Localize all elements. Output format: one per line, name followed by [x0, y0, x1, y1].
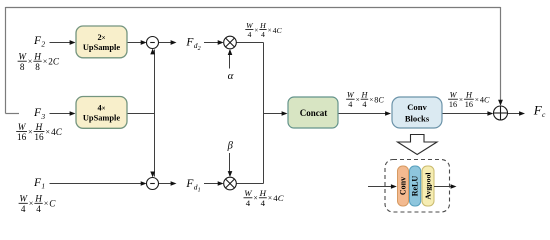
arrowhead subtract2 out: [171, 181, 177, 186]
svg-text:α: α: [228, 70, 234, 82]
hollow expansion arrow from Conv Blocks to detail module: [398, 135, 438, 155]
wire branch up to subtract1: [154, 50, 156, 114]
block Conv layer: [398, 166, 409, 206]
arrowhead into Conv Blocks: [385, 111, 391, 116]
svg-text:C: C: [49, 199, 56, 209]
label F3 input: [33, 107, 45, 121]
box Conv Blocks: [392, 97, 442, 128]
arrowhead subtract1 out: [171, 40, 177, 45]
arrowhead beta arrowhead: [228, 171, 233, 177]
arrowhead into subtract1: [141, 40, 147, 45]
wire F3 residual: left vertical: [5, 7, 7, 114]
wire 4x UpSample out: [127, 113, 155, 115]
label F1 dims W/4 x H/4 x C: [19, 194, 57, 214]
box Concat: [288, 97, 338, 128]
svg-text:W: W: [347, 91, 355, 100]
arrowhead F3 into 4x UpSample: [70, 111, 76, 116]
svg-text:16: 16: [17, 132, 27, 142]
arrowhead into subtract2: [141, 181, 147, 186]
svg-text:4: 4: [261, 30, 265, 39]
arrowhead F2 into 2x UpSample: [70, 40, 76, 45]
arrowhead into Conv layer: [391, 184, 397, 189]
svg-text:W: W: [18, 122, 27, 132]
wire F1 to subtract2: [50, 183, 146, 185]
wire subtract2 to Fd1: [159, 183, 175, 185]
arrowhead branch into subtract2 top: [150, 172, 155, 178]
svg-text:4: 4: [362, 100, 366, 109]
wire collect to Concat: [264, 113, 286, 115]
wire adder to Fc: [508, 113, 524, 115]
svg-text:×: ×: [44, 199, 49, 208]
svg-text:C: C: [53, 57, 60, 67]
wire subtract1 to Fd2: [159, 42, 175, 44]
block Avgpool layer: [422, 166, 434, 206]
svg-text:4: 4: [247, 30, 251, 39]
svg-text:Conv: Conv: [407, 102, 427, 112]
svg-text:W: W: [450, 91, 458, 100]
svg-text:C: C: [378, 96, 384, 105]
svg-text:×: ×: [459, 95, 463, 104]
box 4x UpSample: [76, 97, 127, 129]
svg-text:4×: 4×: [97, 104, 105, 113]
svg-text:4: 4: [348, 100, 352, 109]
svg-text:W: W: [244, 188, 252, 198]
svg-text:1: 1: [198, 188, 201, 194]
svg-text:H: H: [360, 91, 368, 100]
wire alpha into multiply1: [229, 51, 231, 69]
svg-text:×: ×: [268, 194, 272, 203]
wire branch down to subtract2: [154, 114, 156, 177]
wire Concat to Conv Blocks: [338, 113, 389, 115]
wire multiply1 out right: [236, 42, 263, 44]
label concat dims W/4 x H/4 x 8C: [346, 91, 384, 109]
svg-text:ReLU: ReLU: [411, 176, 420, 197]
svg-text:Conv: Conv: [399, 177, 408, 195]
wire Conv Blocks to adder: [442, 113, 492, 115]
wire collect vertical: [263, 43, 265, 184]
operator multiply2 (beta gate): [224, 177, 237, 190]
svg-text:2: 2: [198, 46, 201, 52]
svg-text:16: 16: [34, 132, 44, 142]
operator subtract1: [147, 37, 159, 49]
operator subtract2: [147, 178, 159, 190]
arrowhead into multiply1: [218, 40, 224, 45]
arrowhead detail module output: [451, 184, 457, 189]
svg-text:UpSample: UpSample: [83, 43, 121, 52]
wire out of detail module: [434, 186, 455, 188]
wire F3 residual: stub from F3 row to left edge: [6, 113, 20, 115]
svg-text:H: H: [465, 91, 473, 100]
svg-text:4: 4: [36, 204, 41, 214]
svg-text:Concat: Concat: [300, 108, 328, 118]
svg-text:H: H: [259, 21, 266, 30]
svg-text:Blocks: Blocks: [405, 114, 430, 124]
svg-text:C: C: [277, 26, 283, 35]
svg-text:C: C: [484, 96, 490, 105]
label Fc output: [533, 103, 546, 120]
wire multiply2 out right: [236, 183, 263, 185]
svg-text:×: ×: [369, 95, 373, 104]
block ReLU layer: [410, 166, 421, 206]
svg-text:H: H: [259, 188, 267, 198]
svg-text:16: 16: [465, 100, 473, 109]
svg-text:2: 2: [41, 40, 45, 49]
arrowhead to Fc: [519, 111, 525, 116]
box 2x UpSample: [76, 26, 127, 58]
wire F3 residual: top horizontal: [6, 7, 501, 9]
wire beta into multiply2: [229, 153, 231, 176]
svg-text:UpSample: UpSample: [83, 114, 121, 123]
arrowhead branch into subtract1 bottom: [150, 49, 155, 55]
svg-text:8: 8: [20, 62, 25, 72]
label F2 dims W/8 x H/8 x 2C: [18, 52, 60, 72]
wire into detail module: [368, 186, 395, 188]
label weighted Fd2 dims W/4 x H/4 x 4C: [245, 21, 282, 39]
label weighted Fd1 dims W/4 x H/4 x 4C: [244, 188, 284, 208]
dashed box conv-block detail module: [385, 160, 450, 213]
operator adder: [494, 106, 508, 120]
label F3 dims W/16 x H/16 x 4C: [16, 122, 63, 142]
svg-text:×: ×: [45, 128, 50, 137]
svg-text:×: ×: [254, 27, 258, 35]
svg-text:×: ×: [43, 57, 48, 66]
svg-text:4: 4: [261, 198, 266, 208]
wire F3 to 4x UpSample: [50, 113, 74, 115]
svg-text:16: 16: [449, 100, 457, 109]
label F2 input: [33, 35, 45, 49]
svg-text:×: ×: [29, 199, 34, 208]
arrowhead alpha arrowhead: [228, 49, 233, 55]
svg-text:8: 8: [35, 62, 40, 72]
svg-text:3: 3: [40, 112, 45, 121]
arrowhead into Concat: [282, 111, 288, 116]
svg-text:C: C: [278, 193, 284, 203]
svg-text:×: ×: [475, 95, 479, 104]
svg-text:4: 4: [246, 198, 251, 208]
svg-text:β: β: [227, 140, 234, 151]
arrowhead residual into adder: [498, 100, 503, 106]
svg-text:C: C: [56, 127, 63, 137]
svg-text:×: ×: [356, 95, 360, 104]
wire F2 to 2x UpSample: [50, 42, 74, 44]
operator multiply1 (alpha gate): [224, 36, 237, 49]
svg-text:Avgpool: Avgpool: [424, 172, 433, 200]
wire 2x UpSample to subtract1: [127, 42, 145, 44]
arrowhead into multiply2: [218, 181, 224, 186]
svg-text:×: ×: [28, 128, 33, 137]
svg-text:4: 4: [21, 204, 26, 214]
svg-text:×: ×: [268, 27, 272, 35]
label conv out dims W/16 x H/16 x 4C: [448, 91, 490, 109]
svg-text:×: ×: [253, 194, 257, 203]
svg-text:×: ×: [28, 57, 33, 66]
svg-text:W: W: [19, 194, 28, 204]
wire F3 residual: right vertical down to adder: [500, 7, 502, 105]
svg-text:1: 1: [41, 182, 45, 191]
arrowhead into adder: [487, 111, 493, 116]
svg-text:W: W: [18, 52, 27, 62]
label F1 input: [33, 177, 45, 191]
wire Fd1 to multiply2: [204, 183, 222, 185]
label Fd2 difference feature: [185, 36, 200, 52]
label Fd1 difference feature: [185, 178, 200, 194]
svg-text:2×: 2×: [97, 33, 105, 42]
wire Fd2 to multiply1: [204, 42, 222, 44]
